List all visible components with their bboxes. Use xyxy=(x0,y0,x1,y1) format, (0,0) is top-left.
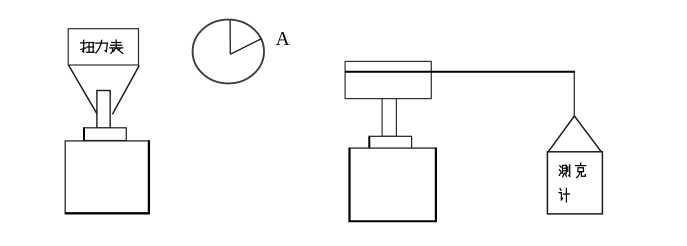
funnel right slant xyxy=(112,65,139,114)
dial needle vertical xyxy=(229,20,231,54)
collar thick left edge (right assembly) xyxy=(368,136,370,148)
motor box thick bottom edge xyxy=(65,212,150,214)
text 扭 xyxy=(81,40,94,52)
rope vertical drop xyxy=(573,72,575,117)
motor base box (left) xyxy=(65,141,149,213)
right box thick bottom edge xyxy=(348,220,437,222)
spring scale hook triangle xyxy=(548,116,601,152)
funnel left slant xyxy=(69,65,98,115)
dial circle xyxy=(193,20,264,84)
shaft of torque meter xyxy=(97,91,110,129)
text 表 xyxy=(110,40,123,53)
spring scale box (测克计) xyxy=(547,152,602,214)
motor box thick right edge xyxy=(148,140,150,214)
pulley top rectangle (right assembly) xyxy=(345,61,431,98)
text 计 xyxy=(559,188,569,202)
collar (right assembly) xyxy=(369,136,411,148)
right box thick left edge xyxy=(348,148,350,222)
right box thick right edge xyxy=(435,148,437,222)
motor shaft (right assembly) xyxy=(382,99,396,137)
motor base box (right) xyxy=(350,148,436,221)
text 力 xyxy=(96,40,108,53)
text 克 xyxy=(576,163,586,177)
text 测 xyxy=(559,165,570,177)
torque meter label box (扭力表) xyxy=(68,29,138,65)
collar on motor xyxy=(84,128,126,141)
collar thick left edge xyxy=(83,127,85,140)
rope horizontal xyxy=(345,71,575,73)
svg-text:A: A xyxy=(276,29,290,50)
dial needle to upper right xyxy=(230,38,262,54)
